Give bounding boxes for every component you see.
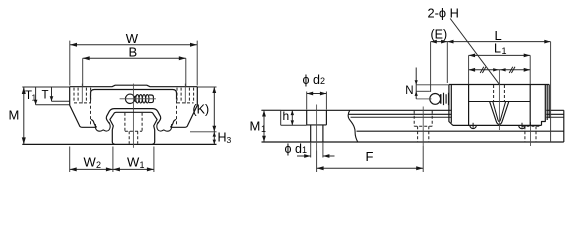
left tapped hole (hidden) bbox=[74, 88, 91, 103]
rail bottom line bbox=[262, 141, 564, 143]
dimension phi d2 bbox=[303, 73, 327, 110]
vertical centerline (block / rail hole) bbox=[132, 84, 134, 148]
svg-text:L: L bbox=[494, 41, 501, 55]
rail fixing bolt (sectioned) bbox=[307, 110, 327, 142]
rail cross-section bbox=[110, 112, 157, 144]
svg-text:F: F bbox=[366, 149, 374, 164]
svg-text:2: 2 bbox=[320, 76, 325, 86]
svg-text:2-ϕ H: 2-ϕ H bbox=[428, 5, 459, 20]
dimension (E) and L bbox=[431, 27, 551, 142]
rail mounting hole (hidden, front) bbox=[125, 113, 142, 144]
svg-text:B: B bbox=[129, 45, 138, 60]
rail top line bbox=[262, 109, 564, 111]
svg-text:N: N bbox=[405, 85, 413, 97]
svg-text:2: 2 bbox=[96, 160, 101, 170]
end seal plate (front) bbox=[91, 90, 177, 100]
dimension M1 bbox=[250, 110, 281, 142]
block top tapped hole (hidden) bbox=[494, 85, 505, 102]
ground line bbox=[22, 143, 216, 145]
svg-text:W: W bbox=[84, 154, 97, 169]
dimension (K) bbox=[190, 87, 217, 132]
svg-text:M: M bbox=[250, 118, 261, 133]
dimension B bbox=[83, 45, 186, 87]
bolt centerline bbox=[316, 105, 318, 151]
block body outline bbox=[70, 85, 198, 127]
dimension M bbox=[9, 87, 26, 144]
hole spacing line with break marks bbox=[469, 67, 531, 73]
rail hole 3 (hidden, under block) bbox=[522, 126, 540, 142]
dimension T1 / T boxes bbox=[22, 87, 69, 105]
right hole centerline bbox=[184, 84, 186, 104]
dimension H3 bbox=[213, 131, 232, 146]
svg-text:ϕ d: ϕ d bbox=[285, 142, 302, 156]
rail hole 3 centerline bbox=[530, 122, 532, 146]
svg-text:W: W bbox=[127, 154, 140, 169]
rail lower edge line bbox=[357, 130, 564, 132]
svg-text:ϕ d: ϕ d bbox=[303, 73, 320, 87]
svg-text:3: 3 bbox=[227, 135, 232, 145]
svg-text:1: 1 bbox=[261, 124, 266, 134]
rail hole 2 (hidden) bbox=[414, 111, 432, 142]
block bottom seal bumps bbox=[470, 125, 476, 128]
rail section break line bbox=[348, 110, 358, 142]
right seal lip bbox=[157, 122, 172, 131]
rail groove lines bbox=[349, 113, 564, 115]
dimension F bbox=[317, 146, 424, 172]
dimension N bbox=[405, 68, 449, 99]
dimension phi d1 bbox=[285, 142, 335, 158]
grease nipple (side view) bbox=[430, 93, 449, 105]
label 2-phi H with leader bbox=[428, 5, 500, 84]
svg-text:T: T bbox=[42, 90, 49, 102]
svg-text:1: 1 bbox=[140, 160, 145, 170]
nipple centerline (side) bbox=[416, 98, 431, 100]
grease nipple (front view) bbox=[125, 94, 153, 103]
svg-text:1: 1 bbox=[502, 46, 507, 56]
block hole centerline bbox=[498, 70, 500, 130]
svg-text:M: M bbox=[9, 108, 20, 123]
left hole centerline bbox=[81, 84, 83, 104]
svg-text:1: 1 bbox=[32, 93, 37, 103]
right tapped hole (hidden) bbox=[177, 88, 194, 103]
left seal lip bbox=[95, 122, 110, 131]
svg-text:h: h bbox=[283, 109, 290, 123]
block (side view) outline bbox=[449, 85, 549, 126]
lubrication funnel bbox=[490, 102, 509, 125]
svg-text:(E): (E) bbox=[431, 27, 448, 41]
svg-text:1: 1 bbox=[302, 145, 307, 155]
dimension L1 bbox=[469, 41, 531, 84]
dimensions W2 / W1 bbox=[70, 147, 154, 173]
nipple horizontal centerline bbox=[120, 98, 156, 100]
rail right end bbox=[563, 110, 565, 142]
h box / counterbore depth bbox=[281, 109, 307, 125]
dimension W bbox=[70, 31, 197, 86]
rail hole 2 centerline bbox=[422, 107, 424, 147]
svg-text:H: H bbox=[218, 131, 227, 145]
